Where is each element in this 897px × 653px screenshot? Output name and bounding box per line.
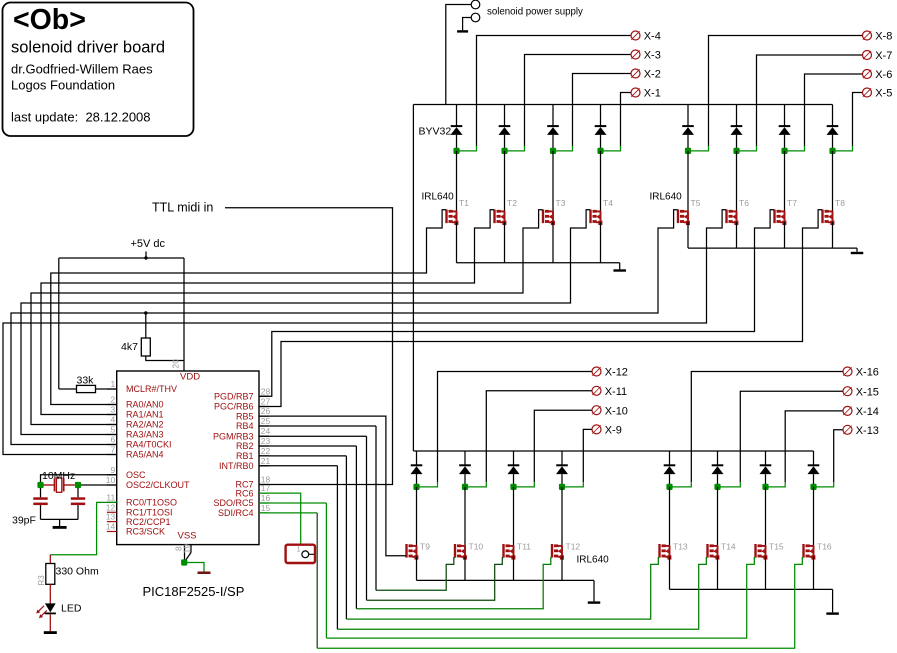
node: junction D2/T2/X xyxy=(501,148,507,154)
svg-text:X-1: X-1 xyxy=(644,88,661,100)
svg-text:9: 9 xyxy=(110,465,115,475)
node: junction D15/T15/X xyxy=(762,484,768,490)
svg-text:T5: T5 xyxy=(691,198,701,208)
transistor T2 (IRL640) xyxy=(493,210,495,224)
transistor T8 (IRL640) xyxy=(821,210,823,224)
node: junction D13/T13/X xyxy=(666,484,672,490)
node: junction D7/T7/X xyxy=(781,148,787,154)
svg-text:24: 24 xyxy=(261,426,271,436)
svg-text:RA5/AN4: RA5/AN4 xyxy=(126,450,164,460)
svg-text:X-8: X-8 xyxy=(875,31,892,43)
transistor T16 (IRL640) xyxy=(802,544,804,558)
svg-text:13: 13 xyxy=(106,512,116,522)
wire diode D6 anode xyxy=(736,135,738,151)
transistor T3 (IRL640) xyxy=(542,210,544,224)
svg-text:solenoid power supply: solenoid power supply xyxy=(487,7,583,18)
svg-text:X-11: X-11 xyxy=(605,386,627,398)
svg-text:X-7: X-7 xyxy=(875,50,892,62)
wire diode D14 anode xyxy=(717,474,719,487)
transistor T6 (IRL640) xyxy=(725,210,727,224)
diode D5 (BYV32) xyxy=(682,125,694,127)
diode D10 (BYV32) xyxy=(459,464,471,466)
op-amp/IC U1 PIC18F2525-I/SP body xyxy=(117,371,259,545)
supply +5V dc symbol xyxy=(145,252,147,259)
node: junction D6/T6/X xyxy=(733,148,739,154)
wire X-9 to diode junction xyxy=(583,429,592,482)
node: junction D14/T14/X xyxy=(714,484,720,490)
node: VSS junction xyxy=(181,559,187,565)
resistor 33k xyxy=(77,385,96,392)
connector X-13 xyxy=(843,425,852,434)
svg-text:27: 27 xyxy=(261,397,271,407)
svg-text:6: 6 xyxy=(110,435,115,445)
pin 9 OSC xyxy=(107,474,117,476)
connector X-1 xyxy=(631,88,640,97)
wire junction to T11 drain xyxy=(513,487,515,546)
wire +5V to VDD pin 20 xyxy=(183,258,185,371)
svg-text:RC3/SCK: RC3/SCK xyxy=(126,527,165,537)
wire gate T2 to RA1 (pin 3) xyxy=(41,210,494,415)
transistor T4 (IRL640) xyxy=(589,210,591,224)
ground (LED) xyxy=(44,631,57,634)
transistor T12 (IRL640) xyxy=(551,544,553,558)
diode D9 (BYV32) xyxy=(411,464,423,466)
connector X-5 xyxy=(863,88,872,97)
connector X-14 xyxy=(843,406,852,415)
wire R3 to LED xyxy=(49,584,51,603)
jumper SJ1 xyxy=(286,545,315,563)
wire diode D7 anode xyxy=(784,135,786,151)
svg-text:TTL midi in: TTL midi in xyxy=(152,201,213,215)
wire bus to diode D5 xyxy=(687,105,689,127)
node: junction D9/T9/X xyxy=(413,484,419,490)
diode D16 (BYV32) xyxy=(808,464,820,466)
svg-text:RB4: RB4 xyxy=(236,421,254,431)
wire X-16 to diode junction xyxy=(691,372,843,483)
svg-text:T6: T6 xyxy=(739,198,749,208)
node: junction D5/T5/X xyxy=(685,148,691,154)
pin 17 RC6 xyxy=(259,492,269,494)
svg-text:X-3: X-3 xyxy=(644,50,661,62)
capacitor C2 39pF xyxy=(71,497,85,500)
svg-text:22: 22 xyxy=(261,446,271,456)
svg-text:R3: R3 xyxy=(37,575,46,586)
svg-text:dr.Godfried-Willem Raes: dr.Godfried-Willem Raes xyxy=(11,62,153,77)
resistor R3 330 Ohm xyxy=(46,564,55,585)
svg-text:IRL640: IRL640 xyxy=(577,555,610,566)
svg-text:T14: T14 xyxy=(721,542,736,552)
ground (crystal caps) xyxy=(53,526,67,529)
wire diode D1 anode xyxy=(456,135,458,151)
title block frame xyxy=(3,3,194,137)
diode D7 (BYV32) xyxy=(779,125,791,127)
svg-text:VSS: VSS xyxy=(178,531,197,542)
svg-text:X-9: X-9 xyxy=(605,425,622,437)
svg-text:RA4/T0CKI: RA4/T0CKI xyxy=(126,440,172,450)
pin 5 RA3/AN3 xyxy=(107,434,117,436)
node: junction D4/T4/X xyxy=(597,148,603,154)
svg-text:14: 14 xyxy=(106,522,116,532)
svg-text:23: 23 xyxy=(261,436,271,446)
wire junction to T8 drain xyxy=(832,151,834,212)
resistor 4k7 xyxy=(141,338,150,356)
wire pin 15 to T16 gate xyxy=(259,512,317,514)
svg-text:20: 20 xyxy=(171,359,181,369)
svg-text:last update: 28.12.2008: last update: 28.12.2008 xyxy=(11,110,151,125)
transistor T13 (IRL640) xyxy=(658,544,660,558)
svg-text:solenoid driver board: solenoid driver board xyxy=(11,39,165,57)
wire supply- to ground xyxy=(463,18,472,31)
pin 13 RC2/CCP1 xyxy=(107,521,117,523)
svg-text:X-5: X-5 xyxy=(875,88,892,100)
svg-text:T8: T8 xyxy=(835,198,845,208)
wire bus to diode D10 xyxy=(464,451,466,465)
node: crystal left xyxy=(37,482,43,488)
svg-text:RB2: RB2 xyxy=(236,441,254,451)
svg-text:21: 21 xyxy=(261,456,271,466)
wire bus to diode D4 xyxy=(600,105,602,127)
connector X-11 xyxy=(592,386,601,395)
svg-text:3: 3 xyxy=(110,405,115,415)
wire pin 23 to T12 gate xyxy=(259,445,356,447)
connector X-8 xyxy=(863,31,872,40)
pin 25 RB4 xyxy=(259,425,269,427)
svg-text:28: 28 xyxy=(261,386,271,396)
wire TTL midi in to RC7 (pin 18) xyxy=(225,208,393,485)
transistor T5 (IRL640) xyxy=(677,210,679,224)
wire junction to T2 drain xyxy=(504,151,506,212)
wire diode D12 anode xyxy=(561,474,563,487)
svg-text:RA0/AN0: RA0/AN0 xyxy=(126,400,164,410)
wire X-15 to diode junction xyxy=(740,391,843,482)
svg-text:PGD/RB7: PGD/RB7 xyxy=(214,392,254,402)
transistor T1 (IRL640) xyxy=(445,210,447,224)
wire gate T4 to RA3 (pin 5) xyxy=(21,210,590,435)
svg-text:T16: T16 xyxy=(817,542,832,552)
node: junction D3/T3/X xyxy=(550,148,556,154)
pin 4 RA2/AN2 xyxy=(107,424,117,426)
node: junction D16/T16/X xyxy=(810,484,816,490)
svg-text:X-14: X-14 xyxy=(856,406,879,418)
wire X-7 to diode junction xyxy=(757,55,863,146)
pin 27 PGC/RB6 xyxy=(259,406,269,408)
wire VSS to ground xyxy=(184,563,204,572)
wire X-2 to diode junction xyxy=(573,74,631,147)
wire LED to ground xyxy=(49,614,51,631)
svg-text:33k: 33k xyxy=(77,375,95,387)
diode D1 (BYV32) xyxy=(451,125,463,127)
wire X-8 to diode junction xyxy=(709,36,863,147)
svg-text:RA1/AN1: RA1/AN1 xyxy=(126,410,164,420)
diode D8 (BYV32) xyxy=(827,125,839,127)
svg-text:<Ob>: <Ob> xyxy=(13,4,86,36)
wire gate T6 to RA5 (pin 7) xyxy=(3,210,726,455)
wire OSC pin 9 to crystal xyxy=(41,475,117,485)
wire bus to diode D1 xyxy=(456,105,458,127)
svg-text:RC6: RC6 xyxy=(235,488,253,498)
wire bus to diode D9 xyxy=(416,451,418,465)
svg-text:10: 10 xyxy=(106,475,116,485)
wire bus to diode D13 xyxy=(669,451,671,465)
svg-text:16: 16 xyxy=(261,493,271,503)
svg-text:X-12: X-12 xyxy=(605,367,628,379)
diode D3 (BYV32) xyxy=(547,125,559,127)
wire X-13 to diode junction xyxy=(834,430,843,482)
node: junction D11/T11/X xyxy=(510,484,516,490)
wire bus to diode D15 xyxy=(765,451,767,465)
node: junction D1/T1/X xyxy=(453,148,459,154)
svg-text:15: 15 xyxy=(261,503,271,513)
diode D11 (BYV32) xyxy=(508,464,520,466)
svg-text:2: 2 xyxy=(110,395,115,405)
wire bus to diode D14 xyxy=(717,451,719,465)
wire pin 21 to T14 gate xyxy=(259,465,337,467)
svg-text:Logos Foundation: Logos Foundation xyxy=(11,78,115,93)
wire bus to diode D7 xyxy=(784,105,786,127)
svg-text:X-15: X-15 xyxy=(856,386,879,398)
pin 14 RC3/SCK xyxy=(107,531,117,533)
wire bus to diode D3 xyxy=(552,105,554,127)
LED D17 xyxy=(45,603,56,612)
pin 3 RA1/AN1 xyxy=(107,414,117,416)
connector X-12 xyxy=(592,367,601,376)
svg-text:+5V dc: +5V dc xyxy=(131,238,166,250)
wire junction to T10 drain xyxy=(464,487,466,546)
connector X-7 xyxy=(863,51,872,60)
pin 2 RA0/AN0 xyxy=(107,404,117,406)
wire: source rail T9-T12 xyxy=(416,557,418,581)
svg-text:X-10: X-10 xyxy=(605,405,628,417)
wire gate T8 to PGC/RB6 (pin 27) xyxy=(259,210,822,407)
wire X-10 to diode junction xyxy=(534,410,592,482)
svg-text:T13: T13 xyxy=(673,542,688,552)
ground (VSS) xyxy=(198,572,211,575)
wire junction to T4 drain xyxy=(600,151,602,212)
diode D15 (BYV32) xyxy=(760,464,772,466)
connector X-2 xyxy=(631,69,640,78)
wire caps to ground xyxy=(40,505,42,519)
svg-text:11: 11 xyxy=(106,492,115,502)
svg-text:4k7: 4k7 xyxy=(121,341,138,353)
svg-text:19: 19 xyxy=(182,544,192,554)
wire bus to diode D11 xyxy=(513,451,515,465)
connector X-9 xyxy=(592,425,601,434)
pin 12 RC1/T1OSI xyxy=(107,511,117,513)
transistor T14 (IRL640) xyxy=(706,544,708,558)
svg-text:39pF: 39pF xyxy=(12,515,36,527)
connector: solenoid power supply pin 1 xyxy=(471,0,480,9)
svg-text:RC2/CCP1: RC2/CCP1 xyxy=(126,517,171,527)
svg-text:RA2/AN2: RA2/AN2 xyxy=(126,420,164,430)
wire gate T7 to PGD/RB7 (pin 28) xyxy=(259,210,774,396)
wire pin 24 to T11 gate xyxy=(259,435,367,437)
svg-text:X-2: X-2 xyxy=(644,69,661,81)
diode D2 (BYV32) xyxy=(499,125,511,127)
svg-text:T1: T1 xyxy=(459,198,469,208)
svg-text:T10: T10 xyxy=(469,542,484,552)
svg-text:T11: T11 xyxy=(517,542,531,552)
wire: supply feed to lower bus xyxy=(412,105,414,452)
wire bus to diode D2 xyxy=(504,105,506,127)
pin 22 RB1 xyxy=(259,455,269,457)
wire junction to T14 drain xyxy=(717,487,719,546)
wire junction to T1 drain xyxy=(456,151,458,212)
wire junction to T3 drain xyxy=(552,151,554,212)
wire diode D10 anode xyxy=(464,474,466,487)
node: junction D8/T8/X xyxy=(829,148,835,154)
pin 16 SDO/RC5 xyxy=(259,502,269,504)
ground (power supply) xyxy=(457,30,468,32)
svg-text:7: 7 xyxy=(110,445,115,455)
pin 6 RA4/T0CKI xyxy=(107,444,117,446)
wire junction to T6 drain xyxy=(736,151,738,212)
wire into R3 xyxy=(49,555,51,564)
wire crystal left to C1 xyxy=(40,488,42,497)
diode D6 (BYV32) xyxy=(731,125,743,127)
svg-text:10MHz: 10MHz xyxy=(42,470,75,482)
wire diode D5 anode xyxy=(687,135,689,151)
svg-text:25: 25 xyxy=(261,416,271,426)
connector X-10 xyxy=(592,406,601,415)
connector: solenoid power supply pin 2 xyxy=(471,13,480,22)
svg-text:17: 17 xyxy=(261,483,271,493)
svg-text:4: 4 xyxy=(110,415,115,425)
wire junction to T7 drain xyxy=(784,151,786,212)
svg-text:X-16: X-16 xyxy=(856,367,879,379)
svg-text:PGM/RB3: PGM/RB3 xyxy=(213,431,254,441)
node: crystal right xyxy=(75,482,81,488)
wire junction to T15 drain xyxy=(765,487,767,546)
wire diode D11 anode xyxy=(513,474,515,487)
wire diode D3 anode xyxy=(552,135,554,151)
wire junction to T9 drain xyxy=(416,487,418,546)
pin 11 RC0/T1OSO xyxy=(107,501,117,503)
wire junction to T13 drain xyxy=(669,487,671,546)
svg-text:RB5: RB5 xyxy=(236,411,254,421)
pin 8/19 VSS stubs xyxy=(184,545,186,562)
svg-text:BYV32: BYV32 xyxy=(419,126,452,138)
svg-text:RC0/T1OSO: RC0/T1OSO xyxy=(126,498,177,508)
wire junction to T16 drain xyxy=(813,487,815,546)
wire X-11 to diode junction xyxy=(486,391,592,482)
wire pin 16 to T15 gate xyxy=(259,502,326,504)
svg-text:RA3/AN3: RA3/AN3 xyxy=(126,430,164,440)
svg-text:PGC/RB6: PGC/RB6 xyxy=(214,402,254,412)
svg-text:T4: T4 xyxy=(603,198,613,208)
wire bus to diode D8 xyxy=(832,105,834,127)
transistor T9 (IRL640) xyxy=(405,544,407,558)
diode D14 (BYV32) xyxy=(712,464,724,466)
wire: source rail T1-T4 xyxy=(456,222,458,263)
wire X-6 to diode junction xyxy=(805,74,863,146)
wire gate T1 to RA0 (pin 2) xyxy=(51,210,447,405)
svg-text:LED: LED xyxy=(61,603,82,615)
connector X-4 xyxy=(631,31,640,40)
pin 28 PGD/RB7 xyxy=(259,395,269,397)
svg-text:T9: T9 xyxy=(420,542,430,552)
svg-text:INT/RB0: INT/RB0 xyxy=(219,461,254,471)
svg-text:T15: T15 xyxy=(769,542,784,552)
wire pin 25 to T10 gate xyxy=(259,425,376,427)
svg-text:IRL640: IRL640 xyxy=(650,192,683,203)
svg-text:VDD: VDD xyxy=(180,372,200,383)
svg-text:1: 1 xyxy=(110,379,115,389)
svg-text:X-6: X-6 xyxy=(875,69,892,81)
wire diode D8 anode xyxy=(832,135,834,151)
pin 23 RB2 xyxy=(259,445,269,447)
wire: solenoid supply bus (lower) xyxy=(413,450,813,452)
svg-text:330 Ohm: 330 Ohm xyxy=(56,566,99,578)
svg-text:T7: T7 xyxy=(787,198,797,208)
svg-text:MCLR#/THV: MCLR#/THV xyxy=(126,384,177,394)
svg-text:SDO/RC5: SDO/RC5 xyxy=(213,498,253,508)
wire X-14 to diode junction xyxy=(785,411,843,482)
wire bus to diode D12 xyxy=(561,451,563,465)
wire crystal right to C2 xyxy=(77,488,79,497)
svg-text:26: 26 xyxy=(261,406,271,416)
wire 4k7 to VDD xyxy=(146,356,184,361)
wire X-5 to diode junction xyxy=(853,93,863,147)
crystal Q1 10MHz xyxy=(44,484,55,486)
svg-text:T3: T3 xyxy=(556,198,566,208)
transistor T15 (IRL640) xyxy=(754,544,756,558)
pin 26 RB5 xyxy=(259,415,269,417)
svg-text:OSC: OSC xyxy=(126,470,146,480)
wire: solenoid supply bus (top) xyxy=(413,104,832,106)
diode D12 (BYV32) xyxy=(556,464,568,466)
pin 21 INT/RB0 xyxy=(259,465,269,467)
pin 18 RC7 xyxy=(259,484,269,486)
ground (T13-T16 rail) xyxy=(832,589,834,612)
svg-text:T2: T2 xyxy=(507,198,517,208)
wire to 4k7 xyxy=(145,313,147,338)
wire diode D13 anode xyxy=(669,474,671,487)
node: junction D10/T10/X xyxy=(462,484,468,490)
svg-text:5: 5 xyxy=(110,425,115,435)
connector X-15 xyxy=(843,387,852,396)
wire diode D9 anode xyxy=(416,474,418,487)
svg-text:OSC2/CLKOUT: OSC2/CLKOUT xyxy=(126,480,190,490)
pin 7 RA5/AN4 xyxy=(107,454,117,456)
wire X-12 to diode junction xyxy=(438,372,592,483)
ground (T9-T12 rail) xyxy=(593,580,595,601)
wire RC0 pin 11 to R3 xyxy=(50,502,116,554)
pin 24 PGM/RB3 xyxy=(259,435,269,437)
wire bus to diode D16 xyxy=(813,451,815,465)
node: 4k7 junction xyxy=(144,311,147,314)
svg-text:X-13: X-13 xyxy=(856,425,879,437)
wire +5V rail xyxy=(59,257,184,259)
pin 10 OSC2/CLKOUT xyxy=(107,484,117,486)
wire supply+ to bus xyxy=(446,5,471,105)
wire OSC2 pin 10 to crystal xyxy=(78,484,117,486)
connector X-16 xyxy=(843,367,852,376)
ground (T1-T4 rail) xyxy=(619,263,621,270)
transistor T7 (IRL640) xyxy=(773,210,775,224)
wire gate T5 to RA4 (pin 6) xyxy=(11,210,678,445)
svg-text:PIC18F2525-I/SP: PIC18F2525-I/SP xyxy=(143,584,245,599)
svg-text:X-4: X-4 xyxy=(644,31,661,43)
capacitor C1 39pF xyxy=(33,497,47,500)
wire pin 26 to T9 gate xyxy=(259,416,406,556)
svg-text:SDI/RC4: SDI/RC4 xyxy=(218,508,254,518)
connector X-3 xyxy=(631,50,640,59)
wire gate T3 to RA2 (pin 4) xyxy=(31,210,543,425)
svg-text:1: 1 xyxy=(297,545,301,554)
wire diode D15 anode xyxy=(765,474,767,487)
diode D13 (BYV32) xyxy=(664,464,676,466)
transistor T11 (IRL640) xyxy=(502,544,504,558)
